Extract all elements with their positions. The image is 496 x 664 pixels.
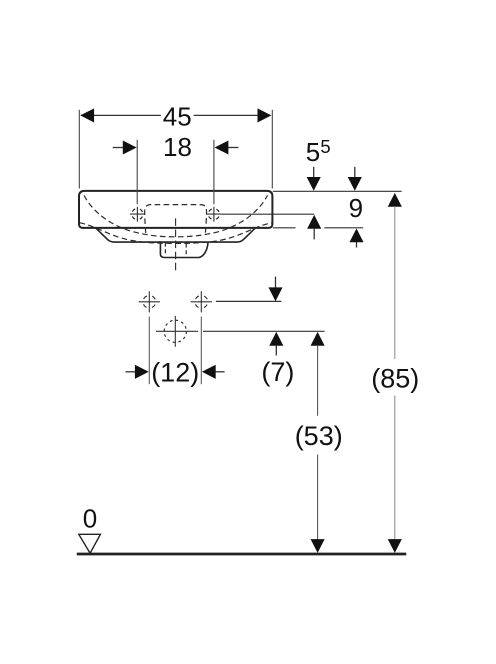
svg-text:0: 0: [83, 503, 97, 533]
stem lower: [317, 455, 319, 541]
datum triangle: [79, 534, 101, 553]
ext line right: [213, 140, 215, 204]
arrow (53) bottom: [311, 539, 325, 553]
arrow (7) top: [275, 277, 277, 289]
deck extension line segments: [273, 227, 363, 229]
drain hole: [164, 320, 186, 342]
dim line 45: [81, 114, 271, 116]
ext line left: [78, 110, 80, 189]
overflow box (dashed): [145, 205, 207, 233]
arrow 9 bottom: [349, 229, 363, 243]
arrow 18 left: [113, 147, 125, 149]
stem upper: [394, 206, 396, 359]
svg-text:9: 9: [349, 193, 363, 223]
stem lower: [394, 396, 396, 541]
drain pipe hidden edges (dashed): [165, 243, 186, 256]
arrow 5.5 top: [313, 167, 315, 179]
ext line right: [271, 110, 273, 189]
arrow (85) bottom: [388, 539, 402, 553]
arrow (85) top: [388, 193, 402, 207]
arrow (12) right: [215, 371, 225, 373]
floor line: [77, 553, 407, 556]
arrow (12) left: [126, 371, 136, 373]
lower line: [203, 330, 325, 332]
tap hole right crosshair: [206, 207, 221, 222]
arrow 18 right: [227, 147, 238, 149]
drain trap: [160, 242, 208, 258]
arrow 9 top: [354, 167, 356, 179]
arrow (53) top: [311, 332, 325, 346]
svg-text:5: 5: [306, 137, 320, 167]
centerline: [175, 218, 177, 270]
arrow (7) bottom: [269, 332, 283, 346]
hidden bowl outline (dashed): [84, 195, 268, 236]
tap hole extension line: [222, 213, 315, 215]
tap hole left: [132, 209, 143, 220]
rim extension line: [273, 190, 402, 192]
tap hole right: [208, 209, 219, 220]
tap hole left crosshair: [130, 207, 145, 222]
ext line right: [200, 317, 202, 385]
svg-text:18: 18: [163, 132, 192, 162]
ext line left: [148, 317, 150, 385]
svg-text:45: 45: [163, 102, 192, 132]
upper line: [216, 300, 281, 302]
svg-text:5: 5: [320, 136, 330, 157]
arrow 5.5 bottom: [307, 215, 321, 229]
basin apron: [96, 228, 255, 242]
arrow 45 left: [80, 108, 94, 122]
arrow 45 right: [258, 108, 272, 122]
ext line left: [136, 140, 138, 204]
svg-text:(53): (53): [295, 421, 343, 451]
svg-text:(12): (12): [151, 357, 199, 387]
stem upper: [317, 345, 319, 416]
basin deck outline: [79, 191, 272, 228]
svg-text:(85): (85): [371, 364, 419, 394]
mounting hole right: [195, 295, 208, 308]
svg-text:(7): (7): [261, 357, 294, 387]
hidden shell bottom curve (dashed): [80, 223, 273, 244]
mounting hole left: [143, 295, 156, 308]
